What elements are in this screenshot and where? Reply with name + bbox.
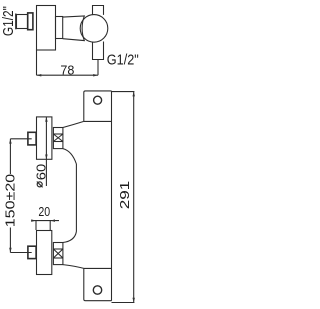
screw hole bottom xyxy=(93,286,101,294)
outlet stem bottom (top view) xyxy=(93,42,104,60)
top union divider 1 xyxy=(53,133,63,135)
top union connector (front view) xyxy=(53,128,63,149)
handle cone (top view) xyxy=(63,16,85,41)
flange nut (top view) xyxy=(28,13,33,30)
dim phi60 diameter symbol xyxy=(37,182,43,188)
top valve nut (front view) xyxy=(28,132,36,145)
svg-text:150±20: 150±20 xyxy=(2,174,17,228)
bottom union cross xyxy=(53,249,63,258)
transition slant top valve to plate xyxy=(63,121,84,127)
svg-text:78: 78 xyxy=(60,63,74,78)
cartridge housing (top view) xyxy=(56,17,63,39)
bottom union divider 1 xyxy=(53,248,63,250)
bottom union connector (front view) xyxy=(53,243,63,265)
dim 78 arrow right xyxy=(93,74,98,77)
dim 150 extension bottom (valve centerline) xyxy=(10,252,31,254)
handle knob circle (top view) xyxy=(80,15,108,43)
dim 20 extension right xyxy=(49,221,51,230)
svg-text:60: 60 xyxy=(33,164,48,181)
dim 291 text xyxy=(117,181,132,210)
dim 20 arrow right xyxy=(50,219,55,222)
dim 291 extension bottom xyxy=(112,302,135,304)
dim 150 line upper segment xyxy=(9,139,11,174)
dim 78 extension line left xyxy=(36,50,38,75)
dim 150 line lower segment xyxy=(9,228,11,253)
dim 78 line xyxy=(37,74,99,76)
screw hole top xyxy=(94,96,102,104)
dim 20 arrow left xyxy=(31,219,36,222)
dim 20 extension left xyxy=(35,221,37,230)
dim 291 extension top xyxy=(112,91,135,93)
tube left edge (front view) xyxy=(75,164,77,232)
label G1/2 right (top view outlet) xyxy=(107,52,139,69)
bottom valve nut (front view) xyxy=(28,246,36,258)
dim phi60 arrow bottom xyxy=(45,155,48,160)
transition curve tube to bottom valve xyxy=(63,232,77,243)
dim phi60 text xyxy=(33,164,48,181)
transition curve bottom valve to plate xyxy=(63,265,84,269)
top union cross xyxy=(53,134,63,142)
dim phi60 arrow top xyxy=(45,117,48,122)
dim 20 text xyxy=(38,204,50,219)
dim 291 line xyxy=(133,92,135,303)
body right edge (front view) xyxy=(111,91,113,301)
valve body (top view) xyxy=(37,6,56,51)
dim phi60 line xyxy=(45,117,47,186)
dim 150 arrow top xyxy=(9,139,12,144)
top union divider 2 xyxy=(53,141,63,143)
top valve block (front view) xyxy=(37,117,52,159)
dim 291 arrow top xyxy=(132,92,135,97)
dim 150 arrow bottom xyxy=(9,248,12,253)
wall plate bottom top edge xyxy=(84,267,112,269)
dim 78 text xyxy=(60,63,74,78)
dim 78 arrow left xyxy=(37,74,42,77)
pipe end cap (top view) xyxy=(15,14,16,30)
dim 150 extension top (valve centerline) xyxy=(10,138,31,140)
pipe nipple (top view) xyxy=(17,15,28,29)
wall plate top bottom edge xyxy=(84,120,112,122)
bottom union divider 2 xyxy=(53,257,63,259)
dim 150 text xyxy=(2,174,17,228)
svg-text:G1/2": G1/2" xyxy=(0,6,17,36)
transition curve top valve to tube xyxy=(63,149,77,164)
bottom valve block (front view) xyxy=(37,231,52,275)
wall plate top (front view) xyxy=(84,91,112,122)
dim 291 arrow bottom xyxy=(132,298,135,303)
svg-text:291: 291 xyxy=(117,181,132,210)
dim 20 line xyxy=(31,220,59,222)
label G1/2 left (top view inlet) xyxy=(0,6,17,36)
svg-text:G1/2": G1/2" xyxy=(107,52,139,69)
knob stem top (top view) xyxy=(93,6,104,15)
dim 78 extension line right xyxy=(97,60,99,76)
svg-text:20: 20 xyxy=(38,204,50,219)
wall plate bottom (front view) xyxy=(84,268,112,300)
